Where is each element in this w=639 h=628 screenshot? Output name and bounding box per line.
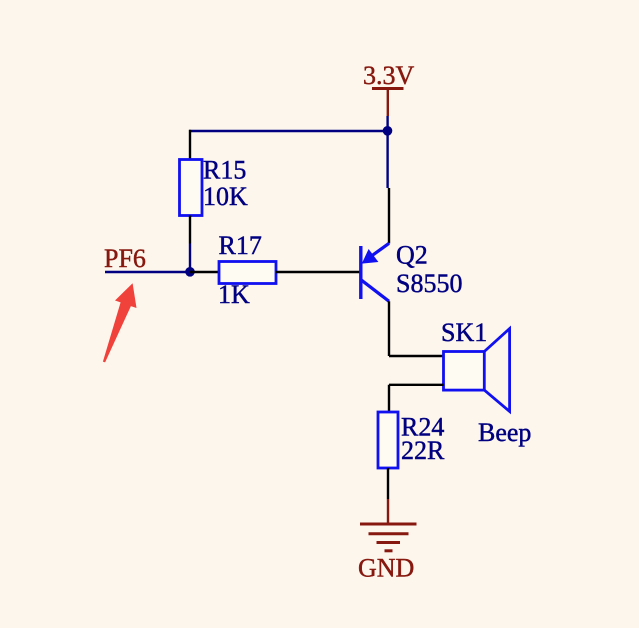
wire speaker bottom to R24 — [389, 385, 444, 412]
wire collector rail navy — [386, 131, 388, 188]
svg-text:Q2: Q2 — [396, 241, 428, 270]
wire PF6 — [105, 271, 190, 273]
pin R17 left — [190, 271, 219, 273]
wire R15 to PF6 junction — [189, 244, 191, 273]
pin R15 top — [189, 130, 191, 160]
svg-text:GND: GND — [358, 554, 414, 583]
transistor Q2 — [361, 243, 389, 301]
svg-text:R15: R15 — [203, 156, 246, 185]
node junction PF6 — [185, 267, 195, 277]
wire 3.3V stem to junction — [386, 116, 388, 131]
pin collector top of Q2 — [388, 188, 390, 244]
svg-text:S8550: S8550 — [396, 269, 462, 298]
power port 3.3V — [372, 89, 404, 117]
svg-text:1K: 1K — [218, 280, 250, 309]
wire base: R17 to Q2 — [276, 271, 360, 273]
pin R15 bottom — [189, 216, 191, 244]
annotation red arrow — [103, 283, 137, 362]
resistor R24 — [378, 412, 398, 468]
ground — [360, 499, 417, 551]
svg-text:PF6: PF6 — [104, 244, 146, 273]
svg-text:10K: 10K — [203, 182, 248, 211]
wire emitter of Q2 to speaker top — [389, 301, 444, 356]
svg-text:22R: 22R — [401, 436, 445, 465]
svg-text:Beep: Beep — [478, 418, 531, 447]
pin R24 bottom — [387, 468, 389, 499]
svg-text:3.3V: 3.3V — [363, 61, 415, 90]
resistor R17 — [219, 262, 276, 284]
node junction at 3.3V rail — [383, 126, 393, 136]
resistor R15 — [180, 160, 203, 216]
speaker SK1 — [444, 329, 510, 412]
wire top horizontal — [189, 130, 388, 132]
svg-text:SK1: SK1 — [441, 318, 487, 347]
svg-text:R17: R17 — [219, 231, 262, 260]
